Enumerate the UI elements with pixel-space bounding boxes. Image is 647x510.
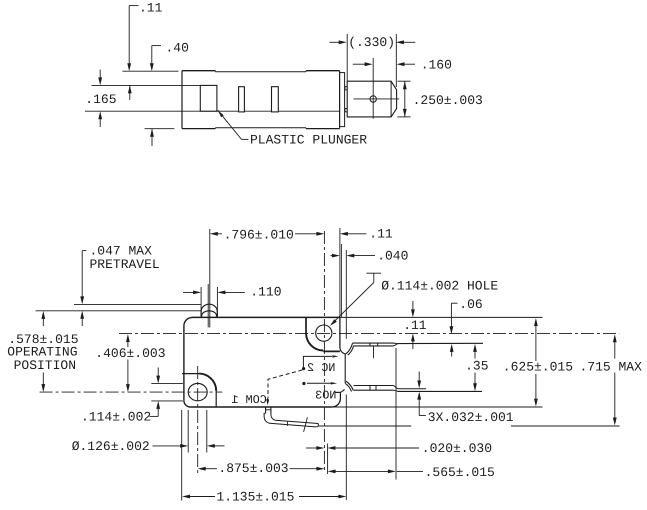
bump width extension lines	[200, 287, 202, 317]
plunger center hole	[370, 96, 376, 102]
slot width extension lines	[187, 410, 189, 453]
svg-text:.165: .165	[85, 92, 116, 107]
body lower inner line	[85, 110, 340, 112]
svg-text:.040: .040	[377, 248, 408, 263]
internal contact dot NO	[302, 382, 305, 385]
plunger vertical centerline	[372, 58, 374, 119]
dimension .020	[306, 447, 317, 449]
dimension (.330) arrows	[330, 41, 341, 43]
svg-text:3X.032±.001: 3X.032±.001	[428, 410, 514, 425]
terminal NO curl neck	[340, 389, 344, 392]
svg-text:.250±.003: .250±.003	[413, 93, 483, 108]
dimension (.330) extension lines	[346, 34, 348, 81]
internal NC contact arrow	[303, 356, 332, 367]
svg-text:.11: .11	[369, 227, 393, 242]
hole label leader	[366, 272, 381, 274]
vent slot 2	[239, 87, 245, 112]
terminal NC curl leaf	[345, 343, 352, 354]
svg-text:.160: .160	[421, 58, 452, 73]
extension line at .020	[327, 444, 329, 475]
plunger bump outer arc	[201, 304, 217, 316]
dimension .11 horizontal	[340, 232, 348, 236]
switch body left cap bottom edge	[182, 128, 215, 130]
svg-text:1.135±.015: 1.135±.015	[216, 489, 294, 504]
svg-text:.40: .40	[166, 41, 189, 56]
svg-text:.110: .110	[250, 285, 281, 300]
svg-text:.020±.030: .020±.030	[422, 441, 492, 456]
terminal COM blade tick	[286, 422, 288, 426]
terminal NO blade notch ticks	[369, 386, 371, 391]
svg-text:Ø.126±.002: Ø.126±.002	[72, 439, 150, 454]
svg-text:Ø.114±.002 HOLE: Ø.114±.002 HOLE	[381, 279, 498, 294]
internal contact dot NC	[302, 367, 305, 370]
plunger base tab lower	[345, 109, 347, 112]
svg-text:COM 1: COM 1	[231, 393, 266, 407]
tab edge extension line	[339, 228, 341, 317]
dimension .165 arrows	[99, 70, 101, 80]
terminal NC blade	[352, 342, 393, 344]
svg-text:NC 2: NC 2	[307, 361, 335, 375]
internal lever dashed	[268, 370, 302, 398]
dimension .715 MAX	[613, 334, 617, 342]
terminal COM bent blade inner	[271, 415, 318, 424]
plunger chamfer line	[390, 81, 392, 117]
plastic plunger leader	[218, 110, 224, 117]
switch body right edge	[339, 71, 341, 129]
dimension .11 lower arrow	[129, 85, 131, 100]
body top edge extension	[340, 316, 543, 318]
bottom slot horizontal centerline	[40, 391, 223, 393]
svg-text:.715 MAX: .715 MAX	[580, 359, 643, 374]
terminal NO blade upper edge line	[398, 388, 427, 390]
body edge between terminals	[344, 354, 346, 383]
dimension .06	[451, 302, 457, 304]
pretravel reference line upper	[74, 303, 201, 305]
terminal NO blade lower edge line	[398, 390, 483, 392]
terminal COM blade slash mark	[304, 417, 308, 432]
body top-left corner	[184, 317, 192, 326]
terminal NC blade edge line	[397, 342, 483, 344]
body upper inner line	[92, 84, 201, 86]
hidden tick below NC blade	[373, 346, 375, 358]
mounting hole tab top-right	[305, 317, 307, 333]
terminal NO blade	[354, 385, 394, 387]
svg-text:NO3: NO3	[315, 388, 336, 402]
terminal NC blade notch ticks	[369, 343, 371, 346]
svg-text:POSITION: POSITION	[14, 358, 76, 373]
body bottom-right corner	[332, 399, 341, 408]
terminal COM tip extension line	[318, 425, 411, 427]
dimension .160 arrows	[353, 63, 367, 65]
dimension .40 lower arrow	[151, 129, 153, 146]
dimension .040	[331, 255, 335, 257]
body top edge	[192, 316, 340, 318]
plunger body with chamfered tip	[347, 81, 396, 117]
extension line top edge left	[122, 70, 178, 72]
dimension .250 line	[404, 81, 406, 117]
terminal COM blade end	[317, 424, 319, 426]
svg-text:.114±.002: .114±.002	[81, 410, 151, 425]
svg-text:.11: .11	[403, 318, 427, 333]
slot edge extension lines left	[151, 383, 183, 385]
inner edge extension line	[340, 244, 342, 317]
terminal NO curl leaf	[346, 381, 353, 390]
switch body main bottom edge	[215, 127, 306, 129]
plunger base tab upper	[345, 87, 347, 90]
extension line bottom edge left	[145, 128, 175, 130]
bottom slot vertical centerline	[197, 366, 199, 473]
svg-text:(.330): (.330)	[348, 35, 395, 50]
svg-text:.625±.015: .625±.015	[503, 360, 573, 375]
svg-text:.796±.010: .796±.010	[224, 227, 294, 242]
switch body left edge	[181, 71, 183, 129]
body bottom edge extension	[332, 406, 543, 408]
svg-text:.565±.015: .565±.015	[425, 465, 495, 480]
mounting hole top-right	[316, 325, 332, 341]
switch body left cap top edge	[182, 70, 215, 72]
dimension .114	[157, 368, 159, 378]
svg-text:.875±.003: .875±.003	[218, 461, 288, 476]
notch floor at NO terminal	[335, 391, 340, 393]
internal lever arrow to COM	[267, 398, 269, 400]
dimension 1.135	[182, 495, 190, 499]
dimension .047 MAX PRETRAVEL	[82, 250, 86, 252]
svg-text:PLASTIC PLUNGER: PLASTIC PLUNGER	[250, 132, 367, 147]
body bottom edge	[190, 406, 332, 408]
vent slot 1	[200, 85, 217, 111]
mounting hole tab bottom-left	[182, 373, 199, 375]
hole horizontal centerline	[119, 332, 619, 334]
svg-text:.406±.003: .406±.003	[95, 346, 165, 361]
body left edge extension line	[181, 410, 183, 501]
dimension .875	[198, 467, 206, 471]
switch body main top edge	[215, 71, 306, 73]
vent slot 3	[272, 87, 279, 112]
plunger bump inner arc	[202, 311, 217, 317]
body left edge	[183, 326, 185, 401]
switch body right cap bottom edge	[306, 128, 340, 130]
dimension .250 extension lines	[398, 80, 411, 82]
terminal NC curl neck	[340, 348, 345, 354]
dimension .35	[473, 344, 477, 352]
terminal face extension line lower	[345, 395, 347, 501]
svg-text:PRETRAVEL: PRETRAVEL	[90, 257, 160, 272]
body bottom-left corner	[184, 401, 191, 407]
plunger bump extension line pair	[209, 229, 211, 327]
mounting slot bottom-left	[188, 383, 207, 400]
terminal face extension line upper	[345, 250, 347, 339]
switch body left cap step	[214, 71, 216, 72]
dimension .110	[183, 291, 196, 293]
svg-text:.11: .11	[139, 0, 163, 15]
dimension .11 vertical	[412, 301, 414, 312]
body right edge lower	[339, 392, 341, 398]
dimension .796 line	[216, 233, 222, 235]
dimension .625	[534, 318, 538, 326]
internal NO contact arrow	[307, 382, 331, 384]
svg-text:.35: .35	[465, 359, 488, 374]
pretravel reference line lower	[36, 310, 202, 312]
svg-text:.06: .06	[459, 297, 482, 312]
switch body right cap top edge	[306, 70, 340, 72]
dimension 3X .032	[418, 372, 420, 383]
switch body end bushing	[340, 73, 345, 127]
terminal COM neck	[265, 407, 267, 413]
top hole vertical centerline	[323, 231, 325, 473]
dimension .11 top leader	[129, 5, 138, 7]
dimension .40 leader	[152, 45, 161, 47]
terminal COM bent blade outer	[264, 413, 318, 427]
dimension .565	[328, 470, 336, 474]
plunger horizontal centerline	[354, 98, 400, 100]
blade taper extension line	[395, 348, 397, 480]
dimension .578 operating position	[41, 311, 45, 319]
dimension .406	[126, 334, 130, 342]
switch body right cap step	[305, 71, 307, 72]
